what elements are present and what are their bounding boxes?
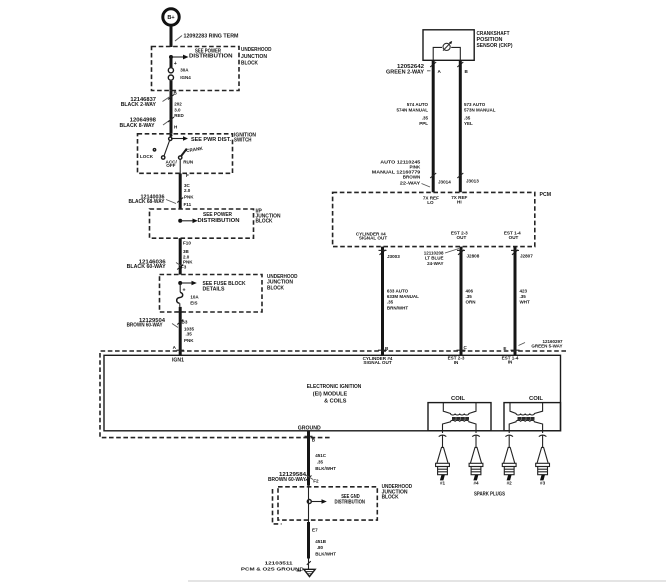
- ignition switch (dashed box): [138, 132, 257, 173]
- node junction in I/P block: [178, 219, 182, 223]
- svg-text:HI: HI: [457, 200, 462, 205]
- svg-text:#3: #3: [540, 481, 546, 486]
- connector 12064998 BLACK 8-WAY: [120, 117, 175, 129]
- svg-text:12103511: 12103511: [265, 560, 294, 565]
- svg-text:GROUND: GROUND: [298, 425, 321, 431]
- wire 574 PPL: [396, 60, 433, 192]
- node junction in block 3: [307, 500, 311, 504]
- svg-text:12092283 RING TERM: 12092283 RING TERM: [184, 34, 239, 40]
- svg-text:COIL: COIL: [529, 396, 544, 402]
- svg-text:F3: F3: [181, 265, 187, 270]
- svg-text:BRN/WHT: BRN/WHT: [387, 306, 408, 311]
- svg-text:BLOCK: BLOCK: [382, 495, 399, 501]
- coil 2 core: [518, 417, 535, 420]
- fuse 10A EIS: [177, 283, 200, 307]
- svg-text:COIL: COIL: [451, 396, 466, 402]
- wire 202 3.0 RED: [171, 90, 185, 133]
- connector 12146036 BLACK 60-WAY: [127, 259, 184, 270]
- svg-text:PNK: PNK: [184, 338, 194, 343]
- connector 12140036 BLACK 68-WAY: [129, 194, 184, 204]
- svg-text:22-WAY: 22-WAY: [400, 181, 421, 186]
- svg-text:#1: #1: [440, 481, 446, 486]
- svg-text:633M MANUAL: 633M MANUAL: [387, 294, 419, 299]
- connector 12129504 BROWN 60-WAY: [127, 318, 184, 329]
- connector 12146837 BLACK 2-WAY: [121, 95, 174, 108]
- svg-text:OFF: OFF: [166, 163, 175, 168]
- CKP internal leads: [433, 47, 442, 60]
- svg-text:.35: .35: [186, 332, 193, 337]
- node top contact: [170, 134, 173, 137]
- contact ACC/OFF: [162, 156, 165, 159]
- svg-text:3.0: 3.0: [174, 108, 181, 113]
- svg-text:OUT: OUT: [509, 235, 519, 240]
- svg-text:ELECTRONIC IGNITION: ELECTRONIC IGNITION: [307, 384, 362, 390]
- svg-text:UNDERHOOD: UNDERHOOD: [241, 47, 272, 53]
- svg-text:#2: #2: [507, 481, 513, 486]
- svg-text:DETAILS: DETAILS: [203, 287, 226, 293]
- svg-text:RUN: RUN: [183, 159, 194, 164]
- svg-text:F10: F10: [183, 241, 191, 246]
- svg-text:BLK/WHT: BLK/WHT: [315, 466, 336, 471]
- EI module box (solid): [104, 355, 561, 431]
- wire 573 YEL: [460, 60, 495, 192]
- wire 3C 2.0 PNK: [180, 159, 194, 209]
- EI module labels: [172, 355, 519, 431]
- svg-text:BLK/WHT: BLK/WHT: [315, 551, 336, 556]
- svg-text:F2: F2: [313, 478, 319, 483]
- svg-text:574 AUTO: 574 AUTO: [407, 102, 429, 107]
- ignition switch internals: [140, 134, 232, 168]
- svg-text:BROWN 60-WAY: BROWN 60-WAY: [268, 477, 307, 483]
- svg-text:LOCK: LOCK: [140, 154, 154, 159]
- svg-text:406: 406: [466, 289, 474, 294]
- node junction in block 2: [178, 281, 182, 285]
- underhood junction block 1 (dashed): [152, 47, 272, 91]
- svg-text:SEE PWR DIST.: SEE PWR DIST.: [191, 137, 232, 143]
- spark plug #2: [502, 431, 516, 486]
- switch arm to ACC/OFF: [164, 140, 170, 156]
- see pwr dist arrow: [171, 138, 183, 140]
- svg-text:JUNCTION: JUNCTION: [241, 54, 267, 60]
- svg-text:.35: .35: [466, 294, 473, 299]
- spark plug #3: [536, 431, 550, 486]
- svg-text:633 AUTO: 633 AUTO: [387, 289, 409, 294]
- svg-text:SIGNAL OUT: SIGNAL OUT: [363, 360, 391, 365]
- wire 406 ORN: [457, 247, 476, 356]
- fuse 30A IGN4: [168, 57, 191, 80]
- wire battery feed: [170, 26, 173, 48]
- coil 2: [504, 396, 561, 431]
- crankshaft position sensor (CKP): [423, 30, 513, 61]
- svg-text:2.0: 2.0: [184, 188, 191, 193]
- pin J2808: [458, 250, 480, 259]
- wire 423 WHT: [511, 247, 530, 356]
- svg-text:RED: RED: [174, 113, 184, 118]
- svg-text:OUT: OUT: [457, 235, 467, 240]
- svg-text:BLACK 8-WAY: BLACK 8-WAY: [120, 123, 156, 129]
- svg-text:(EI) MODULE: (EI) MODULE: [313, 391, 348, 397]
- svg-text:+: +: [174, 61, 177, 67]
- svg-text:#4: #4: [473, 481, 479, 486]
- svg-text:WHT: WHT: [520, 299, 530, 304]
- svg-text:GREEN 2-WAY: GREEN 2-WAY: [386, 69, 425, 75]
- pin J2807: [512, 250, 533, 259]
- svg-text:ORN: ORN: [466, 299, 476, 304]
- svg-text:BLOCK: BLOCK: [267, 285, 284, 291]
- svg-text:202: 202: [174, 101, 182, 106]
- svg-text:DISTRIBUTION: DISTRIBUTION: [189, 54, 233, 60]
- svg-text:SENSOR (CKP): SENSOR (CKP): [477, 43, 513, 49]
- svg-text:10A: 10A: [190, 294, 199, 299]
- svg-text:EIS: EIS: [190, 300, 197, 305]
- svg-text:SWITCH: SWITCH: [234, 137, 252, 143]
- svg-text:LO: LO: [427, 200, 434, 205]
- svg-text:E7: E7: [312, 528, 318, 533]
- connector 12110208 LT BLUE 24-WAY: [424, 249, 459, 266]
- coil 1 core: [452, 417, 469, 420]
- svg-text:J2807: J2807: [520, 254, 533, 259]
- node junction in block 1: [169, 55, 173, 59]
- svg-text:423: 423: [520, 289, 528, 294]
- svg-text:J2808: J2808: [467, 254, 480, 259]
- svg-text:.35: .35: [464, 115, 471, 120]
- svg-text:F11: F11: [184, 202, 192, 207]
- wire 1035 .35 PNK: [180, 312, 194, 355]
- underhood junction block 2 (dashed): [160, 274, 298, 312]
- svg-text:IN: IN: [508, 360, 513, 365]
- svg-text:SPARK PLUGS: SPARK PLUGS: [474, 491, 505, 497]
- contact RUN: [179, 156, 182, 159]
- svg-text:573N MANUAL: 573N MANUAL: [464, 108, 496, 113]
- see power distribution arrow (I/P): [180, 212, 240, 224]
- see gnd distribution arrow: [311, 494, 365, 506]
- connector 12129584 BROWN 60-WAY: [268, 472, 313, 483]
- svg-text:24-WAY: 24-WAY: [427, 261, 443, 266]
- coil 2 secondary winding: [509, 420, 542, 430]
- pin ticks at EI module top: [378, 345, 520, 351]
- wire 451C .35 BLK/WHT: [309, 431, 337, 486]
- svg-text:PNK: PNK: [184, 194, 194, 199]
- svg-text:YEL: YEL: [464, 121, 473, 126]
- svg-text:BLACK 2-WAY: BLACK 2-WAY: [121, 102, 157, 108]
- wire 451B .80 BLK/WHT: [309, 522, 337, 559]
- coil 1: [428, 396, 491, 431]
- coil 2 primary winding: [510, 403, 543, 415]
- svg-text:BROWN 60-WAY: BROWN 60-WAY: [127, 323, 163, 329]
- wire fuse to box bottom: [170, 81, 173, 91]
- svg-text:451C: 451C: [315, 453, 327, 458]
- scan artifact line bottom: [188, 580, 666, 582]
- coil 1 secondary winding: [443, 420, 477, 430]
- svg-text:.80: .80: [317, 545, 324, 550]
- svg-text:J3014: J3014: [438, 180, 451, 185]
- svg-text:451B: 451B: [315, 539, 327, 544]
- connector AUTO 12110245 PINK / MANUAL 12160779 BROWN 22-WAY: [372, 160, 479, 187]
- svg-text:3B: 3B: [183, 249, 190, 254]
- contact LOCK: [153, 149, 155, 151]
- battery B+ terminal: [163, 9, 179, 25]
- svg-text:.35: .35: [422, 115, 429, 120]
- see fuse block details arrow: [180, 281, 246, 293]
- ring terminal label 12092283: [175, 34, 239, 42]
- svg-text:.35: .35: [387, 299, 394, 304]
- underhood junction block 3 (dashed): [273, 484, 413, 524]
- connector 12160297 GREEN 5-WAY: [519, 339, 563, 349]
- svg-text:DISTRIBUTION: DISTRIBUTION: [198, 218, 240, 224]
- svg-text:& COILS: & COILS: [324, 398, 347, 404]
- svg-text:J3003: J3003: [387, 254, 400, 259]
- svg-text:IGN4: IGN4: [180, 75, 191, 80]
- wire 633 BRN/WHT: [379, 247, 420, 356]
- svg-text:BLOCK: BLOCK: [241, 61, 258, 67]
- connector 12052642 GREEN 2-WAY: [386, 62, 469, 75]
- svg-text:PPL: PPL: [419, 121, 428, 126]
- svg-text:SIGNAL OUT: SIGNAL OUT: [359, 236, 387, 241]
- svg-text:DISTRIBUTION: DISTRIBUTION: [335, 499, 366, 505]
- switch arm RUN-CRANK: [181, 149, 187, 156]
- pin J3003: [380, 250, 401, 259]
- svg-text:574N MANUAL: 574N MANUAL: [396, 108, 428, 113]
- wire 3B 2.0 PNK: [180, 238, 193, 274]
- svg-text:IGN1: IGN1: [172, 357, 184, 363]
- svg-text:BLACK 68-WAY: BLACK 68-WAY: [129, 199, 165, 205]
- see power distribution arrow: [171, 48, 233, 59]
- contact circle input: [169, 137, 172, 140]
- svg-text:BLACK 60-WAY: BLACK 60-WAY: [127, 264, 167, 270]
- svg-text:PCM & O2S GROUND: PCM & O2S GROUND: [241, 567, 305, 572]
- svg-text:J3013: J3013: [466, 179, 479, 184]
- svg-text:30A: 30A: [180, 68, 189, 73]
- svg-text:BROWN: BROWN: [403, 175, 421, 180]
- svg-text:PCM: PCM: [540, 192, 552, 198]
- svg-text:BLOCK: BLOCK: [256, 219, 273, 225]
- CKP sensor symbol: [443, 43, 450, 50]
- coil 1 primary winding: [443, 403, 476, 415]
- I/P junction block (dashed): [150, 209, 281, 239]
- svg-text:.35: .35: [520, 294, 527, 299]
- wire inside block 3: [308, 486, 310, 522]
- spark plug #1: [436, 431, 450, 486]
- svg-text:573 AUTO: 573 AUTO: [464, 102, 486, 107]
- ground label 12103511 PCM & O2S GROUND: [241, 560, 305, 571]
- svg-text:IN: IN: [454, 360, 459, 365]
- spark plug #4: [469, 431, 483, 486]
- PCM (dashed box): [333, 192, 551, 247]
- svg-text:.35: .35: [317, 460, 324, 465]
- EI module dashed boundary: [100, 351, 566, 438]
- svg-text:+: +: [183, 288, 186, 294]
- svg-text:F: F: [186, 173, 189, 178]
- svg-text:B+: B+: [167, 15, 175, 21]
- ground symbol: [304, 559, 315, 577]
- svg-text:GREEN 5-WAY: GREEN 5-WAY: [531, 344, 562, 349]
